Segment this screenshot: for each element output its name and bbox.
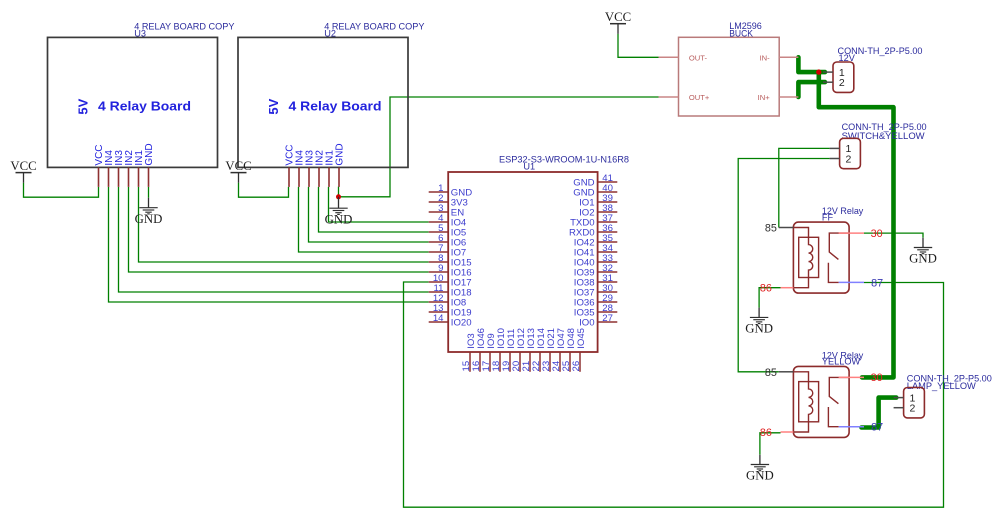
svg-text:4 RELAY BOARD COPY: 4 RELAY BOARD COPY (324, 21, 424, 31)
U3 pin VCC (94, 144, 105, 186)
wire VCC to U3 VCC pin (24, 183, 99, 198)
relay FF label (822, 206, 864, 222)
U1 pin 5 IO5 (429, 223, 467, 239)
svg-text:LAMP_YELLOW: LAMP_YELLOW (907, 381, 976, 391)
U3 pin IN3 (114, 150, 125, 187)
svg-text:4 Relay Board: 4 Relay Board (289, 98, 382, 113)
wire U2 IN1 to U1 IO4 (329, 187, 429, 222)
wire U3 IN4 to U1 IO8 (109, 187, 429, 302)
U1 pin 34 IO41 (574, 243, 618, 259)
connector 12V labels (838, 46, 923, 63)
U2 pin IN3 (305, 150, 316, 187)
svg-text:IN+: IN+ (758, 93, 771, 102)
relay FF pin 85 (765, 223, 794, 235)
svg-text:U1: U1 (523, 162, 535, 172)
U1 pin 19 IO11 (501, 329, 517, 372)
relay FF pin 86 (760, 283, 794, 295)
U1 pin 13 IO19 (429, 303, 472, 319)
LM2596 pin IN+ (758, 93, 799, 102)
wire U3 IN2 to U1 IO16 (129, 187, 429, 272)
U2 pin GND (335, 143, 346, 187)
junction on U2 GND net (336, 194, 341, 199)
wire relay YELLOW pin 86 to ground (760, 433, 781, 455)
thick wire LM2596 IN- to 12V connector pin 1 (798, 57, 825, 72)
wire U2 IN2 to U1 IO5 (319, 187, 429, 232)
U1 pin 32 IO39 (574, 263, 618, 279)
U1 pin 28 IO35 (574, 303, 618, 319)
U1 pin 18 IO10 (491, 328, 507, 372)
wire U3 IN3 to U1 IO18 (119, 187, 429, 292)
U1 pin 25 IO48 (561, 328, 577, 372)
wire U3 IN1 to U1 IO15 (139, 187, 429, 262)
svg-text:IO20: IO20 (451, 317, 472, 328)
wire SWITCH&YELLOW pin 1 to relay FF pin 85 (779, 148, 830, 227)
U1 pin 17 IO9 (481, 333, 497, 371)
svg-text:87: 87 (871, 277, 883, 289)
svg-text:26: 26 (571, 361, 582, 372)
U1 pin 33 IO40 (574, 253, 618, 269)
buck converter LM2596 labels (729, 21, 762, 38)
power flag VCC (U2) (225, 159, 251, 183)
U3 pin IN2 (124, 150, 135, 187)
svg-text:2: 2 (839, 77, 845, 89)
U1 pin 7 IO7 (429, 243, 467, 259)
U1 pin 39 IO1 (579, 193, 617, 209)
svg-text:2: 2 (846, 153, 852, 165)
thick wire 12V net to relay YELLOW pin 30 (819, 72, 894, 377)
U1 pin 4 IO4 (429, 213, 467, 229)
relay FF pin 30 (839, 228, 883, 240)
U1 pin 23 IO21 (541, 328, 557, 372)
U1 pin 30 IO37 (574, 283, 618, 299)
svg-text:ESP32-S3-WROOM-1U-N16R8: ESP32-S3-WROOM-1U-N16R8 (499, 155, 629, 165)
ground GND (relay FF pin 86) (745, 308, 773, 336)
connector J1 12V body (833, 62, 854, 92)
relay YELLOW pin 86 (760, 427, 794, 439)
module U2 body (238, 37, 408, 167)
wire U2 GND pin to ground junction (338, 187, 340, 197)
wire relay FF pin 86 to ground (759, 288, 780, 308)
microcontroller U1 ESP32-S3-WROOM-1U-N16R8 labels (499, 155, 629, 172)
U3 pin IN1 (134, 150, 145, 187)
svg-text:GND: GND (335, 143, 346, 165)
svg-text:GND: GND (746, 469, 774, 483)
U1 pin 21 IO13 (521, 328, 537, 372)
LM2596 pin OUT- (659, 53, 708, 62)
ground GND (relay YELLOW pin 86) (746, 455, 774, 483)
power flag VCC (left, U3) (10, 159, 36, 183)
U1 pin 36 RXD0 (569, 223, 617, 239)
U1 pin 11 IO18 (429, 283, 472, 299)
U1 pin 10 IO17 (429, 273, 472, 289)
svg-text:OUT-: OUT- (689, 53, 708, 62)
svg-text:OUT+: OUT+ (689, 93, 710, 102)
svg-text:GND: GND (325, 212, 353, 226)
module U3 body (48, 37, 218, 167)
connector J3 LAMP_YELLOW body (904, 388, 925, 418)
wire U2 IN3 to U1 IO6 (309, 187, 429, 242)
svg-text:IN-: IN- (760, 53, 771, 62)
relay YELLOW pin 87 (839, 422, 883, 434)
connector SWITCH&YELLOW labels (842, 122, 927, 141)
wire LM2596 OUT+ to U2 GND net (339, 97, 659, 197)
svg-text:VCC: VCC (605, 10, 631, 24)
svg-text:YELLOW: YELLOW (822, 357, 861, 367)
U1 pin 14 IO20 (429, 313, 472, 329)
U2 pin IN2 (315, 150, 326, 187)
wire SWITCH&YELLOW pin 2 to relay YELLOW pin 85 (738, 159, 829, 372)
U1 pin 24 IO47 (551, 328, 567, 372)
U1 pin 38 IO2 (579, 203, 617, 219)
svg-text:VCC: VCC (225, 159, 251, 173)
wire U2 IN4 to U1 IO7 (299, 187, 429, 252)
svg-text:FF: FF (822, 212, 834, 222)
U1 pin 31 IO38 (574, 273, 618, 289)
ground GND (U3) (135, 198, 163, 226)
connector J2 SWITCH&YELLOW body (840, 138, 861, 168)
wire relay FF pin 30 to ground (864, 233, 923, 238)
svg-text:GND: GND (909, 252, 937, 266)
connector LAMP_YELLOW labels (907, 373, 992, 391)
U1 pin 12 IO8 (429, 293, 467, 309)
connector LAMP_YELLOW pin 1 stub (894, 397, 904, 399)
relay YELLOW pin 85 (765, 367, 794, 379)
svg-text:86: 86 (760, 427, 772, 439)
U1 pin 29 IO36 (574, 293, 618, 309)
svg-text:SWITCH&YELLOW: SWITCH&YELLOW (842, 131, 925, 141)
U2 pin VCC (285, 144, 296, 186)
LM2596 pin OUT+ (659, 93, 710, 102)
U1 pin 40 GND (573, 183, 617, 199)
junction on 12V net at connector pin 1 (816, 69, 821, 74)
svg-text:GND: GND (135, 212, 163, 226)
svg-text:27: 27 (602, 313, 613, 324)
LM2596 body (679, 37, 780, 116)
power flag VCC (top, LM2596) (605, 10, 631, 34)
svg-text:VCC: VCC (10, 159, 36, 173)
connector 12V pin 1 stub (823, 71, 833, 73)
svg-text:30: 30 (871, 228, 883, 240)
U1 pin 6 IO6 (429, 233, 467, 249)
svg-text:GND: GND (144, 143, 155, 165)
svg-text:4 Relay Board: 4 Relay Board (98, 98, 191, 113)
thick wire relay YELLOW pin 87 to LAMP_YELLOW pin 1 (862, 398, 897, 428)
U3 pin GND (144, 143, 155, 187)
svg-text:2: 2 (910, 403, 916, 415)
U1 pin 22 IO14 (531, 327, 547, 371)
svg-text:5V: 5V (75, 98, 90, 114)
ground GND (U2) (325, 197, 353, 227)
wire VCC to LM2596 OUT- (618, 34, 659, 57)
U1 pin 26 IO45 (571, 328, 587, 372)
U1 pin 27 IO0 (579, 313, 617, 329)
svg-text:85: 85 (765, 367, 777, 379)
connector SWITCH&YELLOW pin 1 stub (830, 147, 840, 149)
svg-text:85: 85 (765, 223, 777, 235)
U1 pin 16 IO46 (471, 328, 487, 372)
U1 pin 41 GND (573, 173, 617, 189)
U2 pin IN1 (325, 150, 336, 187)
U1 pin 37 TXD0 (570, 213, 617, 229)
U1 body (448, 172, 597, 352)
LM2596 pin IN- (760, 53, 799, 62)
relay YELLOW label (822, 350, 864, 366)
U1 pin 15 IO3 (461, 333, 477, 371)
relay YELLOW body (793, 366, 849, 437)
relay FF body (793, 222, 849, 293)
svg-text:4 RELAY BOARD COPY: 4 RELAY BOARD COPY (134, 21, 234, 31)
thick wire LM2596 IN+ to 12V connector pin 2 (798, 82, 825, 97)
svg-text:IO45: IO45 (576, 328, 587, 349)
wire U1 IO17 to relay FF pin 87 (bottom loop) (404, 282, 944, 507)
svg-text:5V: 5V (266, 98, 281, 114)
U2 pin IN4 (295, 150, 306, 187)
module U2 (4 Relay Board) labels (324, 21, 424, 38)
U3 pin IN4 (104, 150, 115, 187)
U1 pin 20 IO12 (511, 328, 527, 372)
U1 pin 1 GND (429, 183, 472, 199)
wire VCC to U2 VCC pin (239, 183, 289, 198)
svg-text:30: 30 (871, 372, 883, 384)
svg-text:IO0: IO0 (579, 317, 594, 328)
ground GND (relay FF pin 30) (909, 238, 937, 266)
svg-text:87: 87 (871, 422, 883, 434)
U1 pin 9 IO16 (429, 263, 472, 279)
wire U3 GND pin to ground (148, 187, 150, 198)
module U3 (4 Relay Board) labels (134, 21, 234, 38)
svg-text:14: 14 (433, 313, 444, 324)
U1 pin 2 3V3 (429, 193, 468, 209)
U1 pin 8 IO15 (429, 253, 472, 269)
U1 pin 35 IO42 (574, 233, 618, 249)
connector LAMP_YELLOW pin 2 stub (894, 407, 904, 409)
svg-text:GND: GND (745, 322, 773, 336)
U1 pin 3 EN (429, 203, 464, 219)
connector 12V pin 2 stub (823, 81, 833, 83)
svg-text:86: 86 (760, 283, 772, 295)
relay FF pin 87 (839, 277, 883, 289)
connector SWITCH&YELLOW pin 2 stub (830, 158, 840, 160)
relay YELLOW pin 30 (839, 372, 883, 384)
